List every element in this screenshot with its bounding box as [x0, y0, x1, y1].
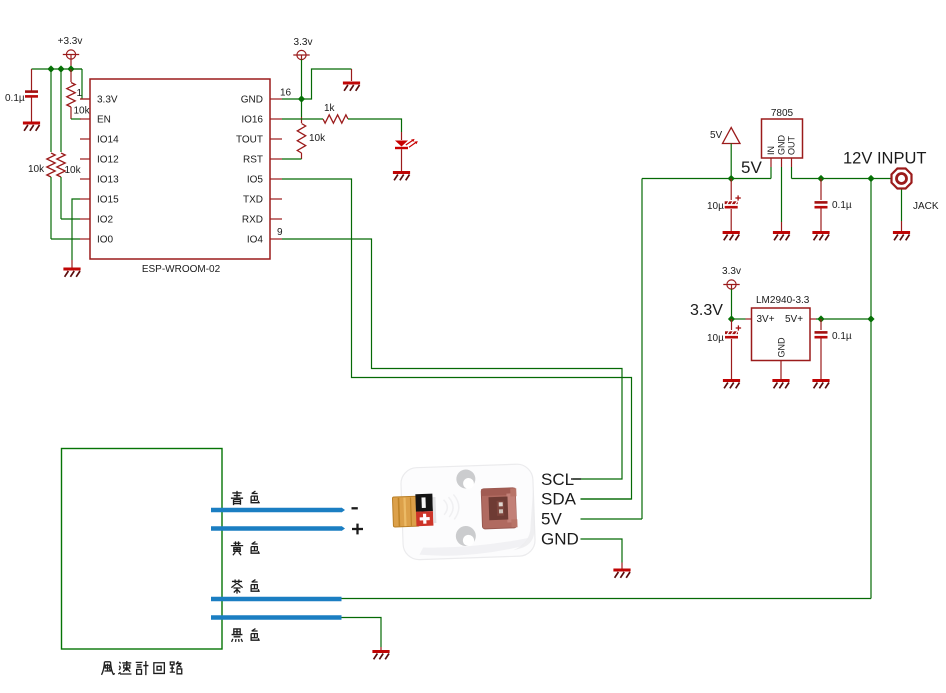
LED D1 [395, 139, 418, 149]
junction rail-R3 [57, 65, 64, 72]
wire GND sensor [581, 539, 623, 563]
pin stub EN [80, 118, 90, 120]
wire R3 to IO2 [60, 177, 62, 219]
wire SDA [581, 498, 632, 500]
svg-text:16: 16 [280, 88, 292, 99]
ground under LM2940 [772, 381, 789, 389]
wire C3 bottom lead [820, 209, 822, 232]
pin stub RXD [270, 218, 282, 220]
wire 3.3v down [301, 60, 303, 100]
svg-text:ESP-WROOM-02: ESP-WROOM-02 [142, 264, 221, 275]
svg-text:5V: 5V [541, 510, 562, 529]
pin stub GND [270, 98, 282, 100]
svg-text:IO15: IO15 [97, 195, 119, 206]
wire IO0 [51, 238, 80, 240]
ground under C3 [812, 233, 829, 241]
svg-text:9: 9 [277, 227, 283, 238]
wire SCL label dash [571, 478, 581, 480]
ground under black wire [372, 652, 389, 660]
svg-text:RST: RST [243, 155, 263, 166]
svg-text:GND: GND [777, 337, 787, 358]
pin stub IO13 [80, 178, 90, 180]
connector J1 jack [892, 169, 912, 189]
pin stub 3.3V [80, 98, 90, 100]
junction 12V LM2940 [867, 315, 874, 322]
wire R4 top lead [301, 117, 303, 123]
pin stub IO14 [80, 138, 90, 140]
ESP-WROOM-02 U1 [90, 79, 270, 259]
svg-text:7805: 7805 [771, 108, 794, 119]
wire rail to bend [71, 68, 82, 70]
svg-text:0.1µ: 0.1µ [832, 331, 852, 342]
wire IN to rail [770, 167, 772, 179]
svg-text:12V INPUT: 12V INPUT [843, 150, 926, 168]
pin stub IO4 [270, 238, 282, 240]
wire 12V down long [870, 179, 872, 599]
wire black (kuro) [211, 615, 342, 619]
wire gnd U3 [780, 370, 782, 380]
wire LED top lead [401, 132, 403, 140]
wire R2 top [50, 69, 52, 152]
svg-text:1k: 1k [324, 103, 336, 114]
svg-text:10µ: 10µ [707, 201, 724, 212]
ground under IO15 [63, 269, 80, 277]
junction rail-R1 [67, 65, 74, 72]
capacitor C3 0.1µ [815, 201, 828, 208]
pin lead 5V+ [810, 318, 816, 320]
junction 12V C3 [817, 175, 824, 182]
wire R1 top lead [70, 69, 72, 82]
pin lead OUT [791, 158, 793, 167]
wire C5 bottom lead [820, 339, 822, 380]
pin lead GND U3 [780, 361, 782, 371]
wire C4 bottom lead [731, 339, 733, 380]
wire C4 top lead [731, 319, 733, 330]
resistor R1 10k [67, 83, 75, 108]
wire R3 top [60, 69, 62, 152]
sensor module photo [391, 464, 535, 561]
wire gnd lead sensor [621, 563, 623, 570]
pin stub IO15 [80, 198, 90, 200]
svg-text:0.1µ: 0.1µ [5, 93, 25, 104]
wire brown (cha) [211, 597, 342, 601]
pin stub 3.3V [80, 98, 90, 100]
wire ground lead IO15 [71, 260, 73, 268]
anemometer circuit box [62, 449, 223, 650]
svg-text:RXD: RXD [242, 215, 263, 226]
wire GND U2 down [781, 167, 783, 222]
junction 5V rail [728, 175, 735, 182]
wire IO15 to ground [72, 199, 80, 260]
pin stub IO2 [80, 218, 90, 220]
svg-text:5V+: 5V+ [785, 314, 803, 325]
regulator U3 LM2940-3.3 [752, 308, 811, 361]
svg-text:IN: IN [766, 146, 776, 155]
regulator U2 7805 [762, 119, 803, 158]
svg-text:3V+: 3V+ [757, 314, 775, 325]
pin stub TXD [270, 198, 282, 200]
junction C5 [817, 315, 824, 322]
pin stub RST [270, 158, 282, 160]
pin lead GND U2 [781, 158, 783, 167]
wire OUT to rail [791, 167, 793, 179]
wire black net to ground [342, 618, 382, 648]
svg-text:3.3V: 3.3V [97, 95, 118, 106]
svg-text:0.1µ: 0.1µ [832, 200, 852, 211]
svg-text:GND: GND [777, 135, 787, 156]
wire R2 to IO0 [50, 177, 52, 239]
svg-text:3.3v: 3.3v [294, 37, 313, 48]
ground under 7805 [773, 233, 790, 241]
resistor R4 10k [297, 124, 305, 154]
pin lead IN [770, 158, 772, 167]
wire 3.3v rail [32, 68, 83, 70]
ground for GND pin [343, 83, 360, 91]
wire 5V symbol lead [730, 144, 732, 179]
wire jack gnd lead [901, 221, 903, 232]
svg-text:IO12: IO12 [97, 155, 119, 166]
wire GND pin path [282, 69, 352, 99]
wire blue (ao) [211, 508, 345, 513]
wire 5V+ to 12V line [816, 318, 871, 320]
svg-text:GND: GND [241, 95, 263, 106]
wire R4 to RST [282, 158, 302, 160]
label kuroiro (black) [232, 629, 260, 642]
svg-text:IO13: IO13 [97, 175, 119, 186]
wire R4 top [301, 99, 303, 117]
wire IO5 to SDA [282, 179, 632, 499]
wire 5V sensor [581, 518, 643, 520]
label aoiro (blue) [231, 491, 260, 505]
svg-text:SDA: SDA [541, 490, 577, 509]
svg-text:LM2940-3.3: LM2940-3.3 [756, 295, 810, 306]
svg-text:5V: 5V [741, 158, 762, 177]
wire C1 top lead [31, 69, 33, 91]
ground under C5 [812, 381, 829, 389]
wire jack to ground [901, 190, 903, 222]
junction 3.3v net [728, 315, 735, 322]
label fusokukei kairo (anemometer circuit) [102, 661, 182, 675]
svg-text:GND: GND [541, 530, 579, 549]
wire R4 bottom lead [301, 153, 303, 159]
svg-text:1: 1 [77, 88, 83, 99]
wire R1 to EN [71, 118, 81, 120]
wire brown net to 12V line [342, 598, 872, 600]
pin stub IO5 [270, 178, 282, 180]
svg-text:5V: 5V [710, 130, 723, 141]
wire LED bottom lead [401, 149, 403, 171]
svg-text:IO16: IO16 [241, 115, 263, 126]
svg-text:10k: 10k [309, 133, 326, 144]
pin stub TOUT [270, 138, 282, 140]
svg-text:SCL: SCL [541, 470, 574, 489]
wire gnd lead black [380, 647, 382, 650]
wire 3.3v right lead [731, 289, 733, 319]
resistor R3 10k [57, 153, 65, 177]
svg-text:IO4: IO4 [247, 235, 264, 246]
wire R5 to LED [348, 119, 402, 132]
svg-text:IO0: IO0 [97, 235, 114, 246]
svg-text:IO2: IO2 [97, 215, 114, 226]
svg-text:OUT: OUT [787, 136, 797, 156]
minus mark [352, 507, 358, 509]
wire 12V rail [792, 178, 892, 180]
pin stub IO16 [270, 118, 282, 120]
wire R1 bottom lead [70, 107, 72, 119]
svg-text:TOUT: TOUT [236, 135, 263, 146]
wire power lead [70, 59, 72, 69]
power +3.3v symbol [63, 50, 79, 59]
capacitor C4 10µ [725, 325, 741, 338]
svg-text:+3.3v: +3.3v [58, 36, 83, 47]
capacitor C5 0.1µ [815, 331, 828, 338]
ground under LED [393, 173, 410, 181]
svg-text:10k: 10k [65, 165, 82, 176]
svg-text:10µ: 10µ [707, 333, 724, 344]
power 3.3v symbol [293, 50, 309, 59]
ground under C1 [23, 123, 40, 131]
plus mark [352, 524, 363, 535]
power 3.3v right symbol [723, 280, 739, 289]
wire IO16 to R5 [282, 118, 323, 120]
svg-text:10k: 10k [28, 164, 45, 175]
power 5V symbol [723, 128, 741, 144]
wire gnd lead U2 [781, 222, 783, 232]
ground under jack [893, 233, 910, 241]
pin stub IO0 [80, 238, 90, 240]
ground under C4 [723, 381, 740, 389]
svg-text:10k: 10k [74, 106, 91, 117]
capacitor C1 0.1µ [25, 90, 38, 97]
wire 3V+ to junction [732, 318, 746, 320]
wire C2 bottom lead [730, 209, 732, 232]
wire C5 top lead [820, 319, 822, 330]
svg-text:IO14: IO14 [97, 135, 119, 146]
junction 3.3v-GND [298, 95, 305, 102]
wire yellow (ki) [211, 526, 345, 531]
junction rail-R2 [47, 65, 54, 72]
pin lead 3V+ [746, 318, 752, 320]
ground under sensor GND [613, 570, 630, 578]
wire IO4 to SCL [282, 239, 622, 479]
resistor R5 1k [323, 115, 348, 123]
svg-text:3.3v: 3.3v [722, 266, 741, 277]
wire C1 bottom lead [31, 98, 33, 123]
label kiiro (yellow) [231, 541, 260, 555]
resistor R2 10k [47, 153, 55, 177]
pin stub IO12 [80, 158, 90, 160]
junction 12V down [867, 175, 874, 182]
wire ground lead GND [351, 69, 353, 81]
wire 5V rail [642, 178, 771, 180]
svg-text:IO5: IO5 [247, 175, 264, 186]
svg-text:EN: EN [97, 115, 111, 126]
capacitor C2 10µ [725, 195, 741, 208]
wire C2 top lead [730, 179, 732, 201]
svg-text:3.3V: 3.3V [690, 302, 723, 319]
wire to 3.3V pin [81, 69, 83, 99]
ground under C2 [723, 233, 740, 241]
svg-text:TXD: TXD [243, 195, 263, 206]
wire 5V down to sensor [641, 179, 643, 520]
wire C3 top lead [820, 179, 822, 201]
label chairo (brown) [231, 579, 259, 593]
wire IO2 [61, 218, 80, 220]
svg-text:JACK: JACK [913, 201, 939, 212]
